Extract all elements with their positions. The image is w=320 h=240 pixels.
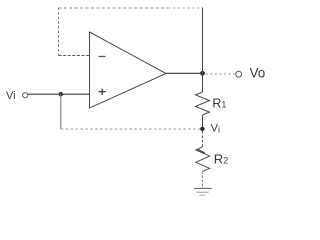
label: Vo output xyxy=(250,65,266,80)
terminal: Vi input (open circle) xyxy=(23,93,28,98)
wire: output node down to R1 xyxy=(202,73,204,92)
label: R2 value xyxy=(214,151,228,166)
svg-text:Vo: Vo xyxy=(250,65,266,80)
resistor R2 xyxy=(196,147,210,172)
label: Vi input xyxy=(6,90,16,102)
wire: feedback into inverting input (dashed) xyxy=(59,55,90,57)
node: junction on input wire xyxy=(59,92,63,96)
node: Vi node between R1 and R2 xyxy=(200,127,204,131)
wire: Vi node down to R2 (broken in scan) xyxy=(201,131,203,147)
svg-text:R1: R1 xyxy=(212,97,226,111)
wire: R2 to ground (broken in scan) xyxy=(201,172,203,189)
svg-text:Vi: Vi xyxy=(6,90,16,102)
op-amp U1 xyxy=(90,32,167,108)
svg-text:Vi: Vi xyxy=(211,122,220,134)
wire: R1 to Vi node xyxy=(202,115,204,127)
wire: top feedback (dashed) from output node to left corner xyxy=(59,7,203,9)
terminal: Vo output (open circle) xyxy=(236,71,242,77)
wire: Vi input to non-inverting input xyxy=(28,93,90,95)
wire: dashed from output node to Vo terminal xyxy=(206,73,236,75)
wire: output node up to top feedback line xyxy=(202,8,204,74)
resistor R1 xyxy=(196,92,210,115)
label: R1 value xyxy=(212,97,226,111)
wire: left feedback vertical (dashed) xyxy=(58,8,60,56)
ground xyxy=(194,188,212,195)
wire: dashed horizontal to Vi node between R1 and R2 xyxy=(61,128,201,130)
wire: drop from input junction xyxy=(60,94,62,129)
node: output node xyxy=(200,71,205,76)
label: Vi node xyxy=(211,122,220,134)
wire: op-amp output xyxy=(166,72,203,74)
